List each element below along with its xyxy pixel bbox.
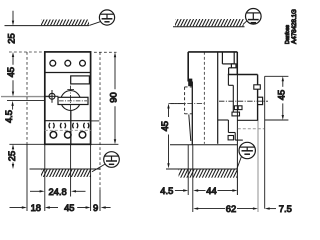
device bottom edge (side view) [170, 144, 237, 146]
knob bar centerline [59, 100, 87, 102]
front clip tab [254, 85, 260, 89]
svg-text:4.5: 4.5 [3, 110, 14, 123]
rail clip hook (filled) [188, 79, 192, 87]
dashed extension device top to right [94, 51, 117, 53]
main back face [191, 82, 193, 145]
svg-text:62: 62 [226, 203, 236, 214]
device bottom extension to left [9, 143, 44, 145]
section divider line [45, 72, 91, 74]
front step at bottom of protruding section [237, 119, 258, 121]
device outline (front view) [45, 52, 91, 144]
svg-text:18: 18 [31, 202, 41, 213]
dashed extension of device top to left [9, 51, 44, 53]
knob handle bar [58, 97, 88, 104]
knob axis centerline (side) [219, 100, 268, 102]
svg-text:90: 90 [108, 92, 119, 102]
dim row 18 / 45 / 9 [10, 206, 111, 208]
fixing screw with cross [45, 90, 58, 103]
svg-text:25: 25 [5, 33, 16, 43]
svg-text:45: 45 [64, 202, 74, 213]
dashed line x=100 (knob projection) [99, 52, 101, 190]
knob side bump [258, 97, 263, 104]
svg-text:45: 45 [159, 121, 170, 131]
svg-text:25: 25 [6, 151, 17, 161]
earth symbol bottom-right [237, 142, 256, 169]
svg-text:A478428.1G: A478428.1G [291, 9, 298, 44]
solid pole divider below knob [70, 110, 72, 144]
dim 44 [218, 189, 238, 191]
svg-text:7.5: 7.5 [279, 203, 292, 214]
earth symbol top-left [89, 10, 114, 26]
terminal section divider [45, 120, 91, 122]
dim 90 [114, 52, 116, 144]
dim 4.5 (side) [175, 189, 206, 191]
svg-text:45: 45 [5, 67, 16, 77]
dim 4.5 (left view) [11, 101, 13, 110]
black extension line knob-bar bottom [7, 99, 44, 101]
hidden mounting plane dashed [203, 52, 205, 144]
svg-text:44: 44 [206, 185, 216, 196]
upper right edge [236, 52, 238, 75]
earth symbol top-right [243, 8, 261, 24]
internal vertical edge [217, 52, 219, 144]
bottom clearance surface (side view) [166, 168, 237, 170]
vertical centerline of pole [70, 86, 72, 111]
DIN rail hidden rectangle [185, 87, 193, 114]
inner staircase [218, 75, 243, 141]
top clearance surface line (side view) [173, 26, 245, 28]
svg-text:9: 9 [93, 202, 98, 213]
dim 7.5 [265, 207, 276, 209]
gray dashed line through lower terminals [45, 129, 91, 131]
side view top edge [188, 51, 237, 53]
dim 45 (left view) [12, 52, 14, 97]
rail centerline dash-dot [169, 103, 205, 105]
bottom terminal circles [50, 132, 86, 139]
extension lines below side view [187, 145, 189, 195]
gray dashed line (side) [238, 128, 264, 130]
extension lines below device (left view) [44, 144, 46, 211]
earth symbol bottom-left view [92, 152, 119, 172]
svg-text:4.5: 4.5 [160, 185, 173, 196]
label window [71, 76, 90, 84]
dim 25 top (left view) [12, 11, 14, 26]
gray front-face extension [257, 121, 259, 212]
dim 25 bottom (left view) [12, 144, 14, 169]
side view upper back edge [187, 52, 189, 82]
svg-text:24.8: 24.8 [48, 186, 66, 197]
lower front face / extension [236, 75, 238, 196]
bottom clearance surface line (left view) [30, 168, 101, 170]
clip release lever [189, 115, 191, 142]
extension device bottom to right [91, 143, 119, 145]
dim 45 left of side view [167, 104, 184, 169]
dim 45 right of side view [265, 76, 289, 120]
knob front extension line [264, 76, 266, 208]
front face upper [257, 75, 259, 121]
dim 24.8 [30, 190, 86, 192]
top clearance surface line (left view) [5, 25, 90, 27]
clamp marks row ( ) x4 [49, 123, 89, 128]
dim 62 [193, 207, 258, 209]
hidden/extension line x=27 [26, 52, 28, 144]
gray reference line at knob-bar top [1, 96, 51, 98]
top front box [222, 52, 236, 75]
front top shelf [228, 74, 258, 76]
svg-text:45: 45 [275, 90, 286, 100]
rotary knob circle [61, 91, 81, 111]
top terminal circles [50, 60, 86, 66]
centerline cross tick above knob [67, 89, 74, 91]
